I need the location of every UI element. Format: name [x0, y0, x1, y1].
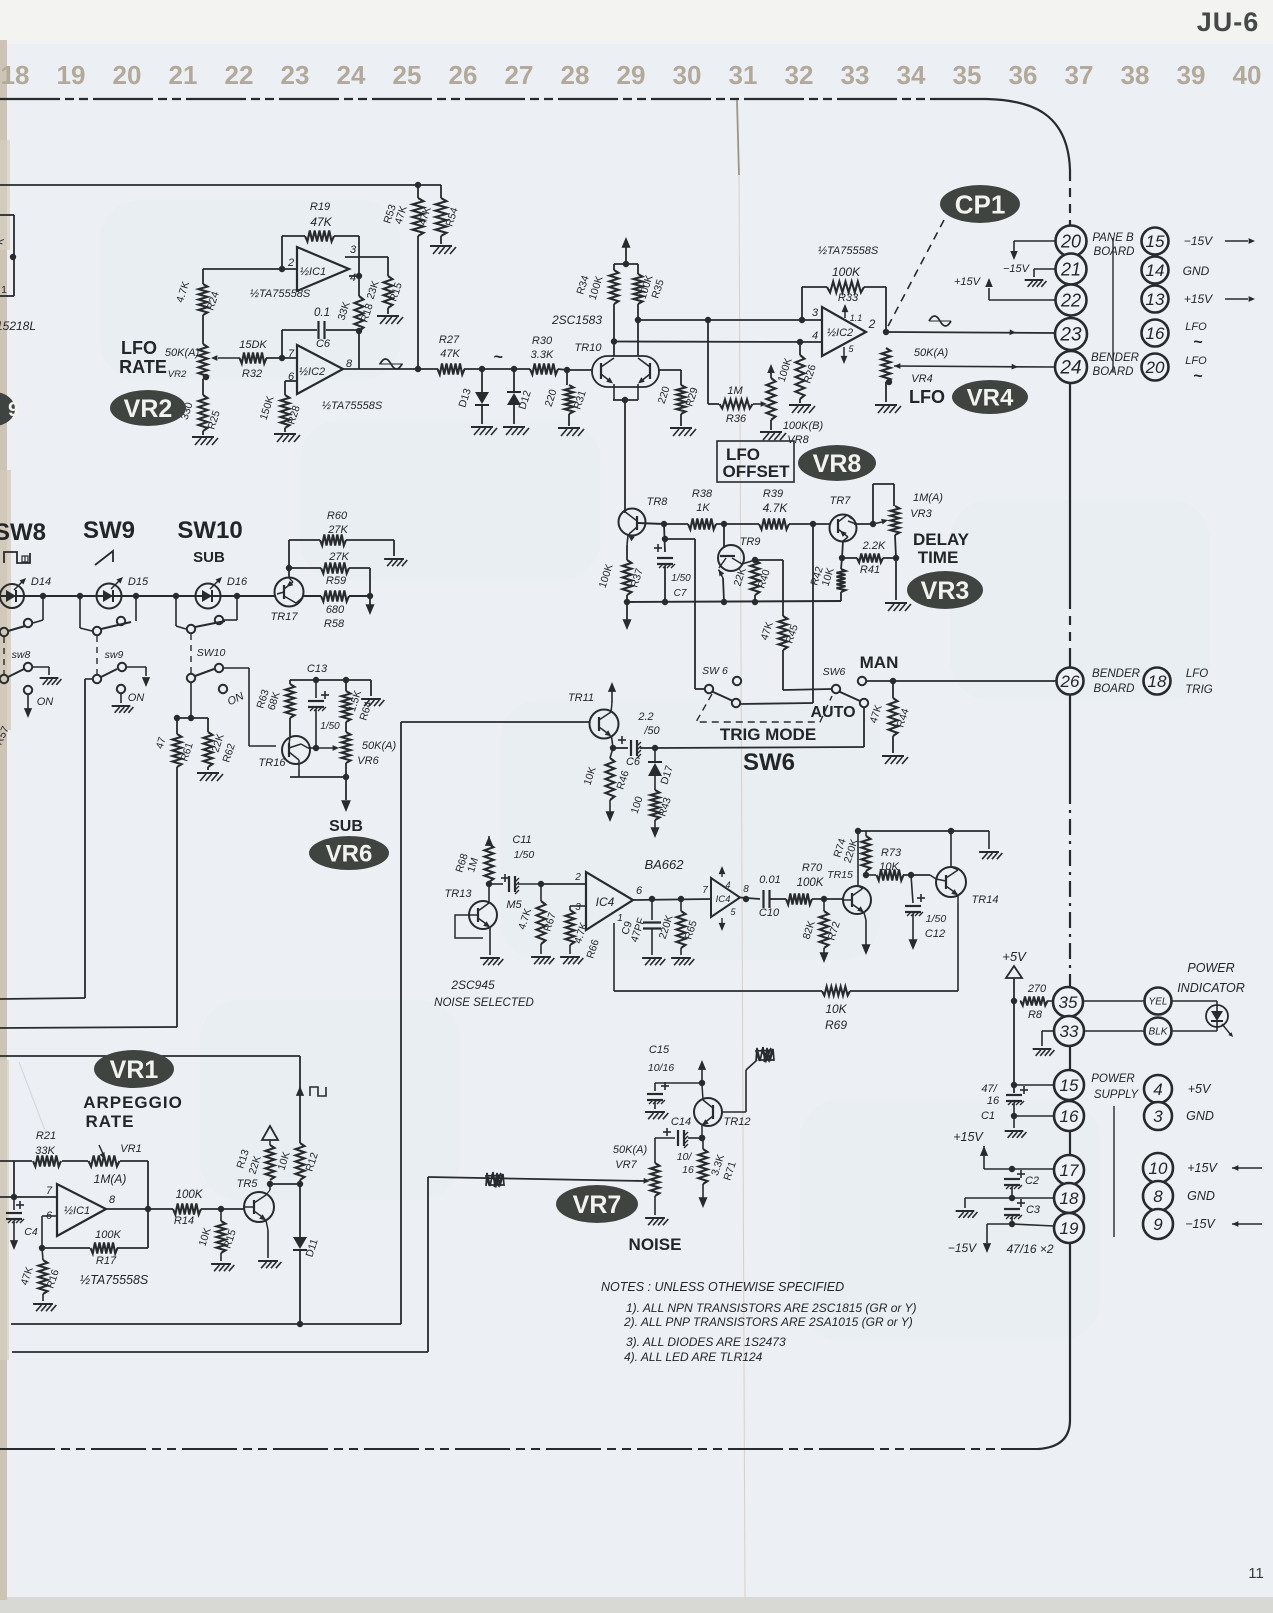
- svg-text:½TA75558S: ½TA75558S: [250, 288, 311, 300]
- op-amp IC4 second: [711, 878, 740, 917]
- partial oval at left edge: [0, 392, 15, 426]
- op-amp IC1 (1/2 TA75558S): [297, 247, 349, 291]
- connector 9 -15V: [1143, 1209, 1173, 1239]
- svg-text:TR17: TR17: [271, 611, 299, 623]
- svg-text:3.3K: 3.3K: [531, 349, 554, 361]
- svg-text:38: 38: [1121, 60, 1150, 90]
- svg-text:25: 25: [393, 60, 422, 90]
- svg-text:R30: R30: [532, 335, 553, 347]
- svg-text:NOISE SELECTED: NOISE SELECTED: [434, 997, 534, 1009]
- resistor R60 27K: [289, 539, 320, 541]
- rail below TR16/VR6: [290, 776, 346, 778]
- svg-text:4: 4: [1153, 1080, 1162, 1099]
- wire pin6 to R28: [285, 380, 297, 382]
- TR5 collector up: [266, 1190, 270, 1195]
- svg-text:47/: 47/: [981, 1083, 997, 1095]
- node C12/TR14 base: [908, 872, 914, 878]
- svg-text:0.01: 0.01: [759, 874, 780, 886]
- connector 16 LFO: [1142, 320, 1169, 347]
- resistor R40 22K: [752, 557, 758, 563]
- switch SW6 left section: [705, 685, 713, 693]
- svg-text:−15V: −15V: [948, 1241, 977, 1255]
- switch sw9 linkage dash: [96, 636, 98, 674]
- feedback wire down to output: [885, 287, 887, 332]
- node R58/R59 with arrow: [367, 593, 373, 599]
- wire R61 long down to left: [176, 767, 178, 1027]
- svg-text:GND: GND: [1186, 1109, 1214, 1123]
- svg-text:2: 2: [287, 257, 294, 269]
- resistor R36 1M: [708, 403, 719, 405]
- svg-text:2SC1583: 2SC1583: [551, 313, 602, 327]
- svg-text:50K(A): 50K(A): [362, 740, 397, 752]
- connector YEL: [1145, 988, 1172, 1015]
- svg-text:1M: 1M: [727, 385, 743, 397]
- node rail C13: [290, 679, 371, 681]
- component fragment box at left edge: [13, 215, 15, 296]
- TR15 collector up: [858, 886, 863, 889]
- svg-text:LFO: LFO: [1186, 668, 1208, 680]
- svg-text:R33: R33: [838, 292, 859, 304]
- wire C6 to pin7: [281, 330, 283, 358]
- svg-text:VR4: VR4: [967, 385, 1014, 412]
- svg-text:R41: R41: [860, 564, 880, 576]
- resistor R46 10K: [610, 748, 613, 758]
- svg-text:R19: R19: [310, 201, 330, 213]
- wire sw9 lower to left rail: [85, 678, 92, 680]
- svg-text:2.2K: 2.2K: [862, 540, 886, 552]
- connector 16: [1054, 1101, 1084, 1131]
- wire R42 to ground rail: [840, 592, 842, 601]
- ground below R60 right: [393, 540, 395, 556]
- IC1 output wire: [106, 1208, 173, 1210]
- resistor R27 47K: [438, 364, 465, 375]
- wire to TR7: [789, 523, 830, 525]
- TR14 emitter down to feedback wire: [957, 896, 959, 904]
- divider line power columns: [1113, 1106, 1115, 1237]
- svg-text:23: 23: [281, 60, 310, 90]
- transistor TR13 diode-connected: [469, 901, 497, 929]
- TR7 emitter wire to R42: [842, 541, 843, 558]
- resistor R8 270: [1011, 998, 1017, 1004]
- oval VR6: [309, 836, 389, 870]
- wire TR10 emitters down to TR8: [624, 400, 626, 510]
- VR4 lower node: [886, 379, 892, 385]
- TR10 collector wires: [613, 341, 615, 356]
- svg-text:TIME: TIME: [918, 548, 959, 567]
- svg-text:VR8: VR8: [787, 434, 809, 446]
- transistor TR8: [619, 509, 646, 536]
- power arrows of IC2: [844, 306, 846, 318]
- svg-text:1.1: 1.1: [850, 313, 863, 323]
- svg-text:VR3: VR3: [921, 577, 970, 605]
- TR13 collector wire: [488, 889, 490, 903]
- node VR2/R25: [203, 374, 209, 380]
- svg-text:9: 9: [1153, 1215, 1163, 1234]
- bottom frame wire y=1324: [11, 1323, 401, 1325]
- svg-text:1). ALL NPN TRANSISTORS ARE 2: 1). ALL NPN TRANSISTORS ARE 2SC1815 (GR …: [626, 1301, 917, 1315]
- svg-text:R60: R60: [327, 510, 348, 522]
- svg-text:18: 18: [1, 60, 30, 90]
- svg-text:½TA75558S: ½TA75558S: [818, 245, 879, 257]
- resistor R19 47K: [282, 235, 305, 237]
- LED D14: [0, 584, 24, 608]
- wiper arrow into VR8: [753, 403, 763, 405]
- svg-text:680: 680: [326, 604, 345, 616]
- svg-text:15218L: 15218L: [0, 319, 36, 333]
- svg-text:½TA75558S: ½TA75558S: [322, 400, 383, 412]
- wire pin4 rail y=342: [614, 341, 822, 344]
- svg-text:AUTO: AUTO: [810, 704, 855, 721]
- svg-text:IC4: IC4: [596, 895, 615, 909]
- TR17 top wire to R60/R59: [288, 568, 290, 578]
- diode D17: [654, 748, 656, 762]
- wire LFO output to connector 23: [886, 332, 1054, 333]
- triangle wave symbol on output: [929, 316, 951, 326]
- TR10 base left wire: [567, 369, 592, 371]
- svg-text:50K(A): 50K(A): [165, 347, 200, 359]
- svg-text:21: 21: [1060, 259, 1081, 279]
- resistor R67 4.7K: [540, 884, 542, 901]
- resistor R65 220K: [680, 899, 682, 911]
- svg-text:100K(B): 100K(B): [783, 420, 824, 432]
- svg-text:20: 20: [1145, 358, 1165, 377]
- svg-text:TRIG MODE: TRIG MODE: [720, 725, 816, 744]
- connector 15: [1054, 1070, 1084, 1100]
- resistor R68 1M with supply arrow: [485, 836, 493, 846]
- svg-text:39: 39: [1177, 60, 1206, 90]
- svg-text:LFO: LFO: [909, 387, 945, 407]
- resistor R41 2.2K: [842, 557, 857, 559]
- svg-text:30: 30: [673, 60, 702, 90]
- svg-text:10: 10: [1149, 1159, 1168, 1178]
- svg-text:11: 11: [1248, 1565, 1264, 1582]
- trigger wire to SW6 auto: [652, 745, 658, 751]
- box label LFO OFFSET: [717, 441, 794, 482]
- TR11 emitter down to trigger wire: [612, 737, 614, 749]
- svg-text:C13: C13: [307, 663, 328, 675]
- svg-text:15: 15: [1146, 232, 1165, 251]
- svg-text:VR3: VR3: [910, 508, 932, 520]
- resistor R30 3.3K: [530, 364, 558, 375]
- wire R59 right down: [349, 567, 370, 569]
- svg-text:22: 22: [225, 60, 254, 90]
- svg-text:28: 28: [561, 60, 590, 90]
- feedback wire to R19: [281, 236, 283, 269]
- svg-text:TR13: TR13: [445, 888, 473, 900]
- svg-text:C15: C15: [649, 1044, 670, 1056]
- svg-text:TR10: TR10: [575, 342, 603, 354]
- svg-text:19: 19: [1060, 1219, 1079, 1238]
- ramp wave icon: [95, 551, 113, 565]
- triangle wave symbol: [380, 359, 402, 369]
- wire TR5 collector to R12 node: [270, 1183, 300, 1185]
- wire connector21 to ground: [1034, 268, 1056, 270]
- node R15: [218, 1206, 224, 1212]
- svg-text:VR2: VR2: [124, 395, 173, 423]
- oval VR7: [556, 1185, 638, 1223]
- connector 8 GND: [1143, 1181, 1173, 1211]
- svg-text:29: 29: [617, 60, 646, 90]
- svg-text:3: 3: [812, 307, 819, 319]
- svg-text:CP1: CP1: [955, 189, 1006, 219]
- transistor TR5: [244, 1192, 274, 1222]
- svg-text:+5V: +5V: [1002, 949, 1027, 964]
- top right rounded corner of border: [986, 99, 1070, 170]
- svg-text:OFFSET: OFFSET: [722, 462, 790, 481]
- svg-text:2.2: 2.2: [637, 711, 653, 723]
- svg-text:C14: C14: [671, 1116, 691, 1128]
- svg-text:6: 6: [636, 885, 643, 897]
- wire R12 to D11: [299, 1180, 301, 1237]
- svg-text:SW9: SW9: [83, 517, 135, 544]
- ground below R25: [202, 431, 204, 435]
- svg-text:3: 3: [350, 244, 357, 256]
- svg-text:BENDER: BENDER: [1092, 668, 1140, 680]
- svg-text:SW10: SW10: [177, 517, 242, 544]
- svg-text:20: 20: [113, 60, 142, 90]
- svg-text:YEL: YEL: [1149, 997, 1168, 1008]
- wire C1 to connector 16: [1014, 1115, 1054, 1117]
- resistor R33 100K: [802, 286, 827, 288]
- bus wire diode row: [0, 595, 276, 597]
- svg-text:M5: M5: [506, 899, 522, 911]
- TR10 base right wire: [659, 369, 681, 371]
- wire SW6 auto tip down to trigger wire: [863, 707, 865, 747]
- capacitor C13 1/50: [315, 680, 317, 698]
- wire MAN contact to connector 26: [866, 680, 1056, 682]
- svg-text:33: 33: [841, 60, 870, 90]
- svg-text:32: 32: [785, 60, 814, 90]
- ground below R66: [569, 945, 571, 954]
- IC4-1 pin1 wire down to feedback: [613, 923, 615, 991]
- svg-text:C1: C1: [981, 1110, 995, 1122]
- capacitor C11/M5: [489, 883, 503, 885]
- wire TR7 junction up over to VR3 top: [872, 484, 874, 524]
- svg-text:10/: 10/: [677, 1151, 693, 1163]
- svg-text:TR14: TR14: [972, 894, 999, 906]
- svg-text:TR16: TR16: [259, 757, 287, 769]
- arrow below R43: [654, 820, 656, 828]
- capacitor C14 10/16: [688, 1137, 702, 1139]
- VR3 bottom wire: [895, 535, 896, 558]
- svg-text:100K: 100K: [797, 877, 825, 889]
- svg-text:R59: R59: [326, 575, 346, 587]
- connector 20 LFO: [1142, 354, 1169, 381]
- svg-text:R39: R39: [763, 488, 783, 500]
- wire IC2 output rail: [343, 368, 438, 370]
- capacitor C2: [1017, 1173, 1025, 1175]
- svg-text:½IC2: ½IC2: [299, 366, 325, 378]
- svg-text:+15V: +15V: [1187, 1161, 1218, 1175]
- TR16 collector down: [298, 760, 300, 770]
- left page edge strip: [0, 40, 7, 1600]
- svg-text:D15: D15: [128, 576, 149, 588]
- svg-text:2: 2: [574, 872, 581, 883]
- TR7 collector wire right: [848, 521, 856, 524]
- svg-text:37: 37: [1065, 60, 1094, 90]
- svg-text:C4: C4: [24, 1226, 38, 1238]
- svg-text:C11: C11: [512, 834, 531, 846]
- wire 33 to ground: [1042, 1030, 1054, 1032]
- arrow down SUB out: [345, 777, 347, 800]
- TR9 collector to R40: [732, 558, 742, 564]
- wire noise out to VR7 wiper: [428, 1177, 644, 1181]
- TR9 base wire: [723, 524, 725, 548]
- svg-text:POWER: POWER: [1187, 961, 1234, 975]
- svg-text:100K: 100K: [95, 1229, 121, 1241]
- svg-text:270: 270: [1027, 983, 1047, 995]
- capacitor C12 1/50: [911, 875, 913, 903]
- svg-text:47K: 47K: [310, 215, 332, 229]
- svg-text:34: 34: [897, 60, 926, 90]
- svg-text:2SC945: 2SC945: [450, 978, 495, 992]
- wire R37 to rail: [626, 595, 628, 602]
- svg-text:4). ALL LED ARE TLR124: 4). ALL LED ARE TLR124: [624, 1350, 763, 1364]
- transistor TR11: [590, 710, 619, 739]
- resistor R39 4.7K: [759, 519, 789, 530]
- svg-text:+15V: +15V: [954, 276, 982, 288]
- svg-text:SW6: SW6: [823, 666, 846, 678]
- node D12: [511, 366, 517, 372]
- svg-text:1M(A): 1M(A): [913, 492, 943, 504]
- svg-text:D14: D14: [31, 576, 51, 588]
- resistor R38 1K: [664, 523, 688, 525]
- svg-text:SUB: SUB: [193, 549, 225, 566]
- svg-text:BOARD: BOARD: [1094, 683, 1135, 695]
- svg-text:SUB: SUB: [329, 818, 363, 835]
- transistor TR10 2SC1583 dual: [592, 356, 659, 387]
- resistor R35 100K: [634, 274, 643, 304]
- svg-text:IC4: IC4: [716, 894, 731, 905]
- svg-text:VR1: VR1: [120, 1143, 141, 1155]
- connector 19: [1054, 1213, 1084, 1243]
- node R18/C6: [358, 331, 360, 369]
- svg-text:C7: C7: [674, 588, 687, 599]
- svg-text:10/16: 10/16: [648, 1062, 674, 1074]
- switch sw8 upper: [42, 596, 44, 620]
- diode D12: [513, 369, 515, 392]
- TR10 right half symbol: [649, 363, 651, 379]
- wire ground rail to connector 18: [965, 1197, 1054, 1199]
- connector 18 LFO TRIG: [1144, 668, 1171, 695]
- capacitor C10 0.01: [762, 890, 764, 908]
- svg-text:24: 24: [1059, 358, 1081, 379]
- transistor TR7 (PNP): [830, 515, 857, 542]
- svg-text:−15V: −15V: [1185, 1217, 1216, 1231]
- resistor R16 47K: [42, 1248, 43, 1260]
- switch sw10 lower: [187, 674, 195, 682]
- wire top rail y=185: [0, 184, 441, 186]
- feedback wire pin3 up: [801, 287, 803, 320]
- svg-text:50K(A): 50K(A): [914, 347, 949, 359]
- oval VR3: [907, 571, 983, 609]
- TR16 emitter arrow to VR6 wiper: [301, 744, 308, 748]
- resistor R29 220: [677, 385, 686, 414]
- svg-text:R58: R58: [324, 618, 345, 630]
- wire pin3 node down to R36: [707, 320, 709, 404]
- svg-text:R38: R38: [692, 488, 713, 500]
- resistor R12 10K: [296, 1143, 305, 1180]
- svg-text:18: 18: [1060, 1189, 1079, 1208]
- svg-text:15DK: 15DK: [239, 339, 267, 351]
- svg-text:7: 7: [702, 885, 708, 896]
- svg-text:VR7: VR7: [615, 1159, 637, 1171]
- bottom dash-dot border line: [0, 1448, 1038, 1450]
- svg-text:47/16 ×2: 47/16 ×2: [1006, 1242, 1053, 1256]
- resistor R44 47K: [892, 681, 894, 698]
- frame wire around VR1 section: [0, 1055, 300, 1057]
- svg-text:4: 4: [725, 880, 730, 890]
- op-amp IC4 first: [586, 872, 633, 930]
- wire TR7 junction down to SW6 man contact: [812, 524, 814, 703]
- svg-text:26: 26: [1060, 672, 1080, 691]
- ground below R16: [42, 1294, 44, 1301]
- resistor R14 100K: [173, 1204, 201, 1215]
- TR11 collector arrow up: [611, 703, 612, 712]
- svg-text:18: 18: [1148, 672, 1167, 691]
- wire 35 to YEL: [1083, 1000, 1145, 1002]
- svg-text:−15V: −15V: [1184, 234, 1213, 248]
- ground below D13: [471, 426, 493, 428]
- ground below R26: [799, 399, 801, 403]
- svg-text:BA662: BA662: [644, 857, 684, 872]
- svg-text:LFO: LFO: [121, 338, 157, 358]
- svg-text:TR7: TR7: [830, 495, 852, 507]
- wire right vertical bus: [1069, 170, 1071, 172]
- ground below R15: [387, 308, 389, 314]
- svg-text:C12: C12: [925, 928, 945, 940]
- connector 13 +15V: [1142, 286, 1169, 313]
- svg-text:TR12: TR12: [724, 1116, 751, 1128]
- wire R17 up to output: [147, 1209, 149, 1248]
- wire connector22 to +15V arrow: [989, 299, 1056, 301]
- switch SW6 right section: [832, 685, 840, 693]
- wire pin4 to R18: [349, 275, 359, 277]
- resistor R64 1.5K: [343, 677, 349, 683]
- TR12 collector to C15 node: [702, 1085, 703, 1100]
- connector 14 GND: [1142, 257, 1169, 284]
- resistor R59 27K: [286, 565, 292, 571]
- dashed mechanical linkage: [696, 694, 832, 722]
- svg-text:23: 23: [1059, 325, 1082, 346]
- svg-text:8: 8: [1153, 1187, 1163, 1206]
- diode D13: [481, 369, 483, 392]
- IC4 output wire: [633, 899, 711, 900]
- divider line between connector columns: [1112, 238, 1114, 372]
- svg-text:MAN: MAN: [860, 653, 899, 672]
- resistor R70 100K: [786, 894, 812, 905]
- node R68/TR13: [488, 882, 490, 889]
- svg-text:SW10: SW10: [197, 647, 226, 659]
- svg-text:LFO: LFO: [1185, 321, 1207, 333]
- switch sw10 upper: [175, 596, 177, 626]
- transistor TR12: [694, 1098, 722, 1126]
- svg-text:4: 4: [812, 330, 818, 342]
- svg-text:½IC1: ½IC1: [64, 1205, 90, 1217]
- transistor TR16: [282, 736, 310, 764]
- svg-text:8: 8: [109, 1194, 116, 1206]
- capacitor C3: [1017, 1202, 1025, 1204]
- svg-text:8: 8: [743, 884, 749, 895]
- svg-text:R36: R36: [726, 413, 747, 425]
- output node of IC2: [883, 329, 889, 335]
- svg-text:sw9: sw9: [105, 649, 124, 661]
- svg-text:27K: 27K: [328, 551, 349, 563]
- wire top right to ground: [988, 831, 990, 849]
- svg-text:100K: 100K: [832, 265, 861, 279]
- svg-text:R70: R70: [802, 862, 823, 874]
- transistor TR14: [936, 867, 966, 897]
